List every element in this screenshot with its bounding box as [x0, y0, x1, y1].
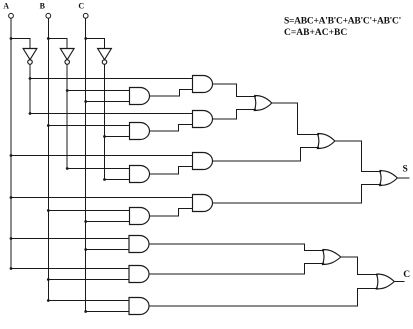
wire G6 out to OR O4 — [149, 264, 323, 275]
wire rail A' — [29, 64, 31, 113]
wire C' tap to AND G3 — [105, 179, 130, 181]
junction dots rail B — [47, 37, 50, 302]
svg-text:A: A — [3, 2, 9, 11]
AND gate G7 — [129, 298, 149, 315]
AND gate H4 — [193, 195, 213, 212]
input terminal C — [83, 13, 88, 18]
svg-text:C: C — [78, 2, 84, 11]
junction dots rail C' — [103, 135, 106, 181]
svg-text:S: S — [403, 165, 408, 175]
wire rail B — [47, 19, 49, 301]
junction dots rail B' — [66, 89, 69, 170]
AND gate G5 — [129, 236, 149, 253]
wire H1 out to OR O1 — [212, 84, 254, 97]
wire G4 out to H4 — [149, 209, 192, 217]
inverter U2 (B') — [60, 49, 74, 65]
wire tee C to inverter — [86, 39, 105, 49]
wire rail B' — [66, 64, 68, 168]
wire C tap to AND G7 — [86, 311, 130, 313]
wire A tap to AND H3 — [11, 155, 193, 157]
AND gate G4 — [130, 208, 150, 225]
AND gate G2 — [130, 123, 150, 140]
wire B' tap to AND G3 — [67, 168, 130, 170]
OR gate O3 — [380, 171, 398, 186]
AND gate H1 — [193, 76, 213, 93]
junction dots rail C — [84, 37, 87, 313]
wire G3 out to H3 — [149, 167, 192, 175]
junction dots rail A — [10, 37, 13, 270]
input terminal A — [9, 13, 14, 18]
wire rail C — [85, 19, 87, 312]
wire A tap to AND G6 — [11, 268, 129, 270]
AND gate H2 — [193, 111, 213, 128]
OR gate O5 — [376, 274, 394, 289]
wire H4 out to OR O3 — [212, 185, 380, 204]
svg-text:S=ABC+A'B'C+AB'C'+AB'C': S=ABC+A'B'C+AB'C'+AB'C' — [284, 17, 401, 27]
junction dots rail A' — [29, 77, 32, 115]
svg-text:C: C — [403, 270, 410, 280]
junction dots OR inputs — [254, 96, 381, 290]
wire B' tap to AND G1 — [67, 90, 130, 92]
wire G1 out to H1 — [149, 90, 192, 97]
OR gate O1 — [254, 96, 271, 111]
wire B tap to AND G6 — [48, 279, 129, 281]
OR gate O4 — [323, 250, 341, 265]
wire B tap to AND G2 — [48, 125, 129, 127]
AND gate G1 — [130, 88, 150, 105]
wire C tap to AND G5 — [86, 249, 130, 251]
wire rail C' — [104, 64, 106, 179]
svg-text:C=AB+AC+BC: C=AB+AC+BC — [284, 28, 347, 38]
wire tee A to inverter — [11, 39, 30, 49]
wire H3 out to OR O2 — [212, 148, 317, 162]
wire C tap to AND G4 — [86, 221, 130, 223]
wire O4 out to OR O5 — [341, 257, 377, 275]
wire A tap to AND H4 — [11, 197, 193, 199]
wire C tap to AND G1 — [86, 101, 130, 103]
wire O5 output C — [394, 281, 404, 283]
wire C' tap to AND G2 — [105, 136, 130, 138]
wire rail A — [10, 19, 12, 269]
wire O1 out to OR O2 — [272, 103, 318, 135]
AND gate H3 — [193, 153, 213, 170]
wire A' tap to AND H1 — [30, 78, 193, 80]
input terminal B — [46, 13, 51, 18]
wire G5 out to OR O4 — [149, 244, 323, 251]
wire tee B to inverter — [48, 39, 67, 49]
inverter U1 (A') — [23, 49, 37, 65]
inverter U3 (C') — [98, 49, 112, 65]
wire H2 out to OR O1 — [212, 110, 254, 120]
svg-text:B: B — [40, 2, 46, 11]
wire G2 out to H2 — [149, 125, 192, 132]
wire A tap to AND G5 — [11, 238, 129, 240]
wire B tap to AND G7 — [48, 300, 129, 302]
AND gate G3 — [130, 166, 150, 183]
OR gate O2 — [317, 134, 335, 149]
wire B tap to AND G4 — [48, 210, 129, 212]
wire A' tap to AND H2 — [30, 113, 193, 115]
wire G7 out to OR O5 — [149, 289, 377, 307]
wire O3 output S — [397, 177, 409, 179]
AND gate G6 — [129, 266, 149, 283]
wire O2 out to OR O3 — [335, 141, 380, 172]
